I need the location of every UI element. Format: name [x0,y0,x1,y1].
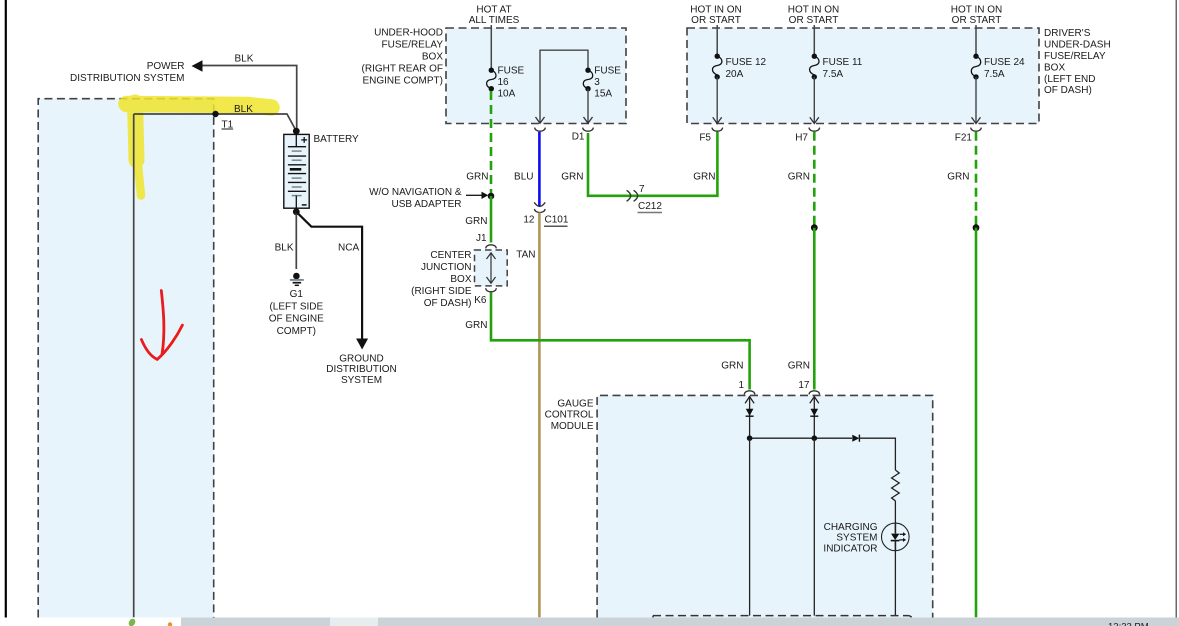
svg-text:K6: K6 [474,295,487,306]
svg-text:C212: C212 [638,201,662,212]
svg-text:COMPT): COMPT) [277,326,316,337]
fuse FUSE3 [583,68,592,92]
label: GAUGE CONTROL MODULE [545,398,594,432]
svg-text:FUSE 24: FUSE 24 [984,57,1025,68]
svg-text:12: 12 [523,215,535,226]
node T1 [212,111,233,131]
svg-text:D1: D1 [572,132,585,143]
svg-text:GAUGE: GAUGE [557,398,593,409]
svg-text:FUSE 11: FUSE 11 [823,57,863,68]
svg-text:H7: H7 [795,133,808,144]
diode D1-int (pin 1) [746,409,754,416]
svg-text:(LEFT END: (LEFT END [1044,74,1096,85]
svg-text:UNDER-DASH: UNDER-DASH [1044,40,1111,51]
svg-text:16: 16 [498,77,510,88]
svg-text:BLK: BLK [275,243,294,254]
svg-text:(RIGHT SIDE: (RIGHT SIDE [411,286,472,297]
svg-text:ALL TIMES: ALL TIMES [469,15,520,26]
wire: left branch vertical (BLK) inside left box [133,114,135,617]
wire: BLK battery to ground G1 [295,212,297,269]
svg-text:BOX: BOX [1044,62,1065,73]
wire: pin17 branch down to internal block [813,438,815,615]
node: splice on F21 branch [973,224,980,231]
svg-text:INDICATOR: INDICATOR [823,544,877,555]
node: W/O NAVIGATION & USB ADAPTER splice [466,192,494,200]
svg-text:GRN: GRN [721,360,743,371]
wire: fuse 24 output to box edge [975,77,977,123]
svg-text:F21: F21 [955,133,973,144]
module box: left power distribution branch (unnamed) [38,99,214,618]
wire: internal bus [747,435,852,441]
svg-text:FUSE/RELAY: FUSE/RELAY [382,40,444,51]
label: FUSE 24 7.5A [984,57,1025,80]
svg-text:JUNCTION: JUNCTION [421,262,472,273]
label: CHARGING SYSTEM INDICATOR [823,522,877,555]
wire: BLK from T1 to battery [134,114,297,131]
node: splice on H7 branch [811,224,818,231]
wire: resistor to LED [894,501,896,524]
wire: bus to resistor [859,438,895,470]
svg-text:W/O NAVIGATION &: W/O NAVIGATION & [369,187,462,198]
wire: fuse 3 output to box edge [587,89,589,123]
wire: fuse 12 output to box edge [716,77,718,123]
svg-text:GRN: GRN [693,171,715,182]
connector F21 [971,117,982,131]
svg-text:G1: G1 [290,289,304,300]
svg-text:10A: 10A [498,89,516,100]
label: HOT IN ON OR START (fuse 12) [690,5,741,26]
svg-text:DISTRIBUTION: DISTRIBUTION [326,364,397,375]
svg-text:J1: J1 [476,233,487,244]
wire: fuse 3 feed rail (inside box) [540,50,588,123]
wire GRN: K6 to gauge module pin 1 [491,293,750,390]
svg-text:UNDER-HOOD: UNDER-HOOD [374,28,443,39]
svg-text:17: 17 [798,380,810,391]
connector K6 (exit arc) [486,288,497,292]
svg-text:FUSE/RELAY: FUSE/RELAY [1044,51,1106,62]
annotation arrow (red) [141,291,182,360]
wire: feed to fuse 11 [813,25,815,56]
svg-text:GRN: GRN [788,171,810,182]
svg-text:BOX: BOX [422,52,443,63]
svg-text:TAN: TAN [516,250,535,261]
connector exit arrow (BLU branch) [535,117,546,131]
wire: feed to fuse 24 [975,25,977,56]
battery [284,128,309,216]
svg-text:GRN: GRN [561,171,583,182]
svg-text:MODULE: MODULE [551,421,594,432]
svg-text:15A: 15A [594,89,612,100]
svg-text:GRN: GRN [788,360,810,371]
wire GRN: splice to J1 [490,196,493,243]
connector F5 [712,117,723,131]
svg-text:GRN: GRN [465,216,487,227]
wire GRN dashed: fuse 16 to splice [490,91,493,193]
svg-text:20A: 20A [726,69,744,80]
diode D17-int (pin 17) [810,409,818,416]
svg-text:OF ENGINE: OF ENGINE [269,314,324,325]
resistor (indicator dropping) [892,470,900,501]
svg-text:FUSE: FUSE [594,65,621,76]
fuse FUSE12 [712,54,721,80]
wire GRN: F21 splice to bottom [975,228,978,618]
svg-text:NCA: NCA [338,243,359,254]
label: G1 (LEFT SIDE OF ENGINE COMPT) [269,289,324,337]
label: HOT IN ON OR START (fuse 11) [788,5,839,26]
svg-text:OF DASH): OF DASH) [424,298,472,309]
svg-text:7: 7 [639,184,645,195]
wire: fuse 11 output to box edge [813,77,815,123]
wire: pin 17 internal with entry arrow [810,396,819,438]
svg-text:GRN: GRN [947,171,969,182]
svg-text:OR START: OR START [952,15,1002,26]
connector H7 [809,117,820,131]
highlighter mark (yellow) [127,103,272,196]
svg-text:GRN: GRN [466,171,488,182]
wire: hot-at-all-times feed to fuse 16 [490,25,492,70]
connector C101 pin 12 [523,202,568,226]
wire: feed to fuse 12 [716,25,718,56]
svg-text:BLK: BLK [234,104,253,115]
connector exit arrow D1 [583,117,594,131]
module box: driver's under-dash fuse/relay box [687,28,1039,124]
svg-text:OR START: OR START [789,15,839,26]
label: HOT AT ALL TIMES [469,5,520,26]
fuse FUSE11 [810,54,819,80]
connector J1 (entry arc) [486,245,497,249]
svg-text:12:33 PM: 12:33 PM [1108,622,1149,626]
label: GROUND DISTRIBUTION SYSTEM [326,354,397,386]
svg-text:T1: T1 [222,120,234,131]
wire TAN [538,213,541,618]
wire: pin 1 internal with entry arrow [745,396,754,438]
label: HOT IN ON OR START (fuse 24) [951,5,1002,26]
svg-text:7.5A: 7.5A [984,69,1005,80]
module box: internal block (partial, bottom) [653,616,912,618]
svg-text:7.5A: 7.5A [823,69,844,80]
fuse FUSE24 [971,54,980,80]
connector pin 17 (entry arc) [809,391,820,395]
svg-text:POWER: POWER [147,61,185,72]
svg-text:CONTROL: CONTROL [545,410,594,421]
wire GRN dashed: F21 down [975,132,978,226]
svg-text:CENTER: CENTER [430,250,471,261]
svg-text:1: 1 [738,380,744,391]
fuse FUSE16 [487,68,496,92]
svg-text:GRN: GRN [465,320,487,331]
svg-text:SYSTEM: SYSTEM [341,375,382,386]
svg-text:OF DASH): OF DASH) [1044,85,1092,96]
svg-text:DISTRIBUTION SYSTEM: DISTRIBUTION SYSTEM [70,73,184,84]
ground G1 [290,273,304,286]
svg-text:FUSE: FUSE [498,65,525,76]
svg-text:3: 3 [594,77,600,88]
svg-text:BATTERY: BATTERY [314,134,360,145]
wire: LED down to internal block [894,550,896,616]
svg-text:C101: C101 [545,215,569,226]
wire GRN: D1 to C212 to F5 [588,132,717,196]
svg-text:USB ADAPTER: USB ADAPTER [391,199,461,210]
svg-text:(RIGHT REAR OF: (RIGHT REAR OF [362,64,443,75]
wire BLU [538,132,541,206]
wire: BLK feed to power distribution system [192,60,297,131]
LED charging system indicator [882,523,910,551]
label: FUSE 12 20A [726,57,767,80]
svg-text:BLK: BLK [235,54,254,65]
svg-text:DRIVER'S: DRIVER'S [1044,28,1091,39]
label: FUSE 3 15A [594,65,621,99]
svg-text:BOX: BOX [450,274,471,285]
svg-text:OR START: OR START [691,15,741,26]
svg-text:F5: F5 [699,133,711,144]
module box: gauge control module [597,395,933,617]
label: FUSE 16 10A [498,65,525,99]
svg-text:SYSTEM: SYSTEM [836,533,877,544]
label: FUSE 11 7.5A [823,57,863,80]
svg-text:(LEFT SIDE: (LEFT SIDE [269,301,323,312]
label: W/O NAVIGATION & USB ADAPTER [369,187,462,210]
wire GRN dashed: H7 down [813,132,816,226]
connector pin 1 (entry arc) [744,391,755,395]
connector C212 pin 7 [627,184,663,213]
module box: under-hood fuse/relay box [446,28,626,124]
wire: pin1 branch down to internal block [749,438,751,615]
svg-text:ENGINE COMPT): ENGINE COMPT) [362,76,443,87]
label: CENTER JUNCTION BOX (RIGHT SIDE OF DASH) [411,250,472,309]
wire GRN: splice to pin 17 [813,228,816,390]
wire: NCA to ground distribution system [296,212,368,350]
svg-text:FUSE 12: FUSE 12 [726,57,767,68]
label: DRIVER'S UNDER-DASH FUSE/RELAY BOX (LEFT END OF DASH) [1044,28,1111,96]
diode D3-int (series to indicator) [852,435,859,442]
module box: center junction box [475,250,508,286]
svg-text:CHARGING: CHARGING [824,522,878,533]
label: POWER DISTRIBUTION SYSTEM [70,61,184,84]
label: UNDER-HOOD FUSE/RELAY BOX (RIGHT REAR OF ENGINE COMPT) [362,28,444,87]
svg-text:GROUND: GROUND [339,354,383,365]
svg-text:BLU: BLU [514,171,533,182]
